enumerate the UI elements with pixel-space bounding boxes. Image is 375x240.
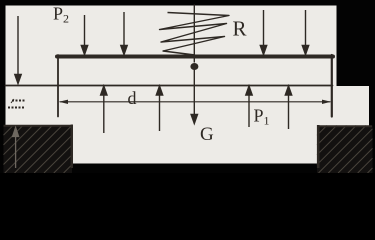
load arrow 2: [81, 15, 87, 55]
black right region top: [337, 0, 375, 86]
reaction arrow 3: [246, 86, 252, 127]
paper background: [0, 0, 375, 173]
svg-text:R: R: [233, 17, 247, 41]
black left band: [0, 0, 6, 173]
black right region middle: [369, 86, 375, 130]
svg-text:d: d: [128, 88, 137, 108]
spring R coil: [160, 5, 230, 63]
reaction arrow 4: [285, 86, 291, 129]
beam bottom edge extending left to wall: [6, 85, 333, 87]
dimension line d: [60, 101, 330, 103]
support block right: [317, 125, 373, 173]
spring centerline: [193, 5, 195, 63]
black bottom-right corner region: [370, 124, 375, 173]
support reaction arrow bottom-left: [13, 128, 19, 169]
svg-text:G: G: [200, 124, 214, 145]
dimension arrowhead left: [59, 100, 68, 104]
reaction arrow 2: [156, 86, 162, 131]
beam left edge with extension down: [57, 55, 59, 117]
beam top edge (thick): [57, 55, 333, 59]
load arrow 3: [121, 12, 127, 55]
weight arrow G: [191, 69, 197, 124]
dimension arrowhead right: [322, 100, 331, 104]
beam right edge with extension down: [331, 55, 333, 117]
black top band: [0, 0, 375, 6]
support block left: [4, 125, 73, 174]
load arrow 5: [302, 10, 308, 55]
load arrow 4: [260, 10, 266, 55]
load arrow P2 far left: [15, 16, 21, 84]
black bottom-left corner region: [0, 124, 6, 173]
black bottom band: [0, 164, 375, 174]
center pivot dot: [190, 63, 198, 70]
wall hatch dots left: [8, 99, 25, 109]
reaction arrow 1: [101, 86, 107, 133]
